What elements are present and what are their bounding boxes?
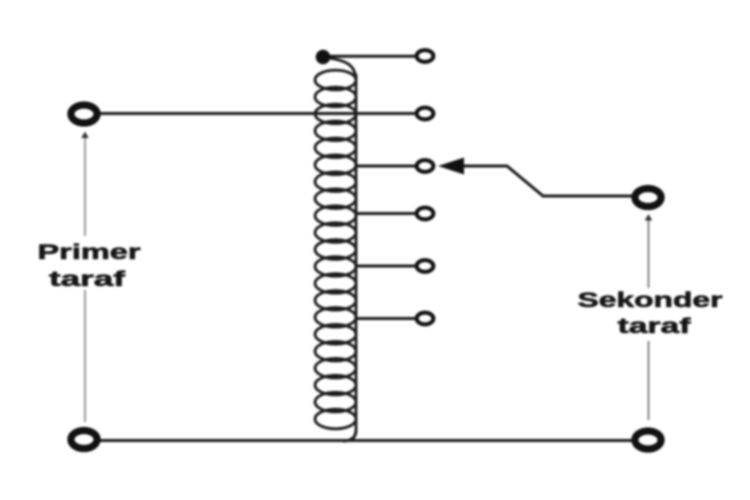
wire: top tap (from junction dot to terminal) [325, 55, 416, 58]
svg-text:taraf: taraf [49, 268, 127, 291]
wire: tap 3 [356, 165, 416, 168]
tap terminal 3 (wiper contact) [417, 160, 434, 172]
arrowhead: primer dimension line [81, 132, 89, 139]
wire: tap 5 [356, 265, 416, 268]
svg-text:Sekonder: Sekonder [578, 289, 723, 312]
wire: bottom bus (primer bottom to sekonder bottom) [84, 439, 648, 442]
wire: tap 6 [356, 317, 416, 320]
terminal: sekonder top [635, 189, 661, 207]
tap terminal 1 [417, 50, 434, 62]
dimension line: sekonder side (lower segment) [648, 341, 650, 420]
arrowhead: sekonder dimension line [645, 214, 653, 221]
label: Sekonder taraf [578, 289, 723, 338]
wire: wiper arm to sekonder top terminal [452, 166, 632, 196]
wire: tap 4 [356, 212, 416, 215]
dimension line: primer side (upper segment) [84, 137, 86, 236]
inductor winding L1 (autotransformer coil) [315, 58, 356, 442]
terminal: primer bottom [71, 431, 97, 449]
label: Primer taraf [38, 241, 141, 291]
tap terminal 4 [417, 208, 434, 220]
tap terminal 6 [417, 313, 434, 325]
svg-text:Primer: Primer [38, 241, 141, 264]
dimension line: primer side (lower segment) [84, 290, 86, 422]
junction dot (coil top node) [316, 50, 331, 65]
wire: primer top to coil and tap 2 [84, 112, 416, 115]
tap terminal 5 [417, 260, 434, 272]
wiper arrowhead (selector arrow) [438, 158, 464, 175]
tap terminal 2 [417, 108, 434, 120]
dimension line: sekonder side (upper segment) [648, 219, 650, 288]
svg-text:taraf: taraf [618, 315, 693, 338]
terminal: primer top [71, 105, 97, 123]
terminal: sekonder bottom [635, 431, 661, 449]
